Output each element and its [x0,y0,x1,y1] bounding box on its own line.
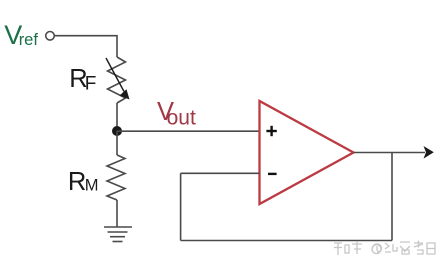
net label Vref [4,20,38,50]
老 [414,241,423,255]
watermark 知乎 @纪客老白 (drawn strokes) [334,241,435,256]
知 [334,243,349,255]
乎 [352,241,362,254]
terminal Vref (open circle) [46,32,55,41]
label RM [68,168,99,196]
@ [372,244,381,254]
output arrowhead [424,146,434,159]
svg-text:F: F [85,73,97,94]
wire from Vref terminal to top of RF [54,36,117,57]
客 [400,242,410,254]
svg-text:R: R [68,168,86,196]
op-amp + input marking [266,126,276,136]
wire RF bottom to node [116,103,118,131]
svg-text:ref: ref [19,31,39,49]
label RF [69,65,96,95]
op-amp U1 (red triangle) [260,101,354,204]
op-amp - input marking [268,173,277,175]
svg-text:out: out [167,107,196,130]
wire RM bottom to ground [116,200,118,227]
feedback wire: output down [391,153,393,241]
svg-text:M: M [85,177,99,195]
feedback wire: into - input [181,172,260,174]
node Vout junction [112,126,122,136]
net label Vout [157,98,196,130]
feedback wire: left riser [180,173,182,240]
wire node down to RM [116,131,118,155]
wire node to op-amp + input [117,130,260,132]
纪 [385,243,397,252]
feedback wire: bottom run [181,240,392,242]
RF wiper arrow [106,58,130,100]
resistor RF (variable, zigzag) [108,57,126,103]
output wire [354,152,426,154]
resistor RM (zigzag) [107,155,125,200]
ground [104,227,132,242]
白 [427,243,435,254]
